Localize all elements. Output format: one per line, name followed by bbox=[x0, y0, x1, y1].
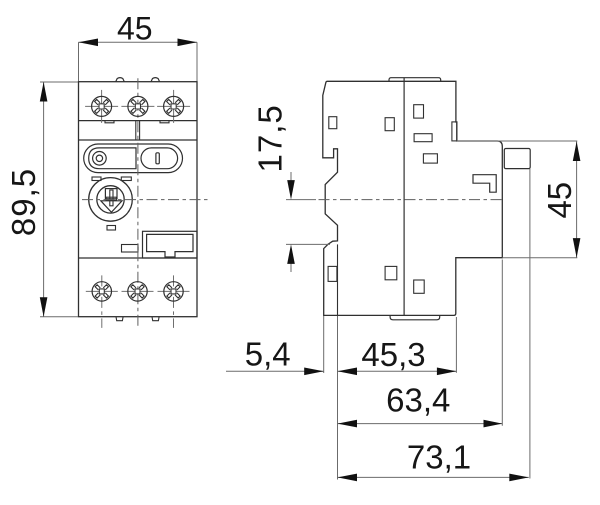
svg-text:5,4: 5,4 bbox=[245, 336, 291, 373]
5,4 arrow bbox=[304, 368, 324, 376]
tab at right edge bbox=[452, 122, 457, 141]
square hole lower-left tall bbox=[328, 266, 337, 281]
45 top right arrow bbox=[178, 39, 198, 47]
bottom extension lines bbox=[323, 316, 325, 373]
63,4 right arrow bbox=[484, 420, 503, 428]
top edge bump right bbox=[151, 78, 160, 82]
bottom screw 2 bbox=[122, 282, 154, 301]
arrowheads bbox=[40, 39, 581, 482]
rocker left panel bbox=[89, 148, 136, 169]
side centerline dash-dot bbox=[319, 199, 503, 201]
svg-text:45: 45 bbox=[117, 11, 153, 47]
45,3 left arrow bbox=[338, 368, 358, 376]
svg-text:89,5: 89,5 bbox=[5, 168, 42, 236]
square hole upper-left bbox=[329, 117, 337, 129]
45 right bottom arrow bbox=[573, 238, 581, 258]
horizontal line below top screws bbox=[79, 120, 198, 122]
45 top left arrow bbox=[79, 39, 99, 47]
dim 5,4 line bbox=[226, 370, 324, 372]
svg-text:45: 45 bbox=[541, 182, 578, 219]
dim 17,5: extension lines bbox=[286, 199, 316, 201]
dim 45 right line bbox=[576, 142, 578, 258]
horizontal line above bottom screws bbox=[79, 257, 198, 259]
dim 73,1 line bbox=[338, 476, 529, 478]
knob outer circle bbox=[89, 178, 133, 222]
terminal window inner with notch bbox=[147, 234, 193, 257]
63,4 left arrow bbox=[338, 420, 358, 428]
dim 45 top: extension lines bbox=[78, 42, 80, 81]
knob inner circle bbox=[97, 186, 124, 213]
dim 45 top line bbox=[79, 41, 198, 43]
bottom screw 3 bbox=[158, 275, 190, 328]
knob cross horizontal slot bbox=[106, 197, 116, 200]
side top bump bbox=[389, 78, 441, 82]
top screw 3 bbox=[157, 90, 190, 123]
top screw 1 bbox=[85, 90, 118, 123]
73,1 right arrow bbox=[509, 474, 529, 482]
small rect left of knob top bbox=[92, 177, 101, 181]
dim 45,3 line bbox=[338, 370, 457, 372]
89,5 bottom arrow bbox=[40, 297, 48, 317]
top screw 2 bbox=[121, 96, 154, 116]
small rect right of knob top bbox=[121, 177, 131, 181]
mounting plane vertical bbox=[337, 244, 339, 315]
terminal window outer bbox=[143, 231, 198, 258]
top edge bump left bbox=[116, 78, 125, 82]
small rect left of terminal window bbox=[122, 245, 139, 253]
dim 89,5 line bbox=[43, 82, 45, 317]
dim 89,5: extension lines bbox=[40, 81, 78, 83]
square hole upper-middle bbox=[385, 118, 394, 131]
side view main outline bbox=[323, 81, 503, 315]
parting vertical line bbox=[403, 78, 405, 316]
center slot verticals bbox=[135, 121, 137, 140]
bottom tab left bbox=[116, 317, 123, 321]
horizontal line above rocker bbox=[79, 139, 198, 141]
square hole lower-middle bbox=[385, 266, 397, 279]
dim 45 right: extension lines bbox=[457, 140, 578, 142]
knob cross vertical slot bbox=[110, 190, 113, 206]
svg-text:45,3: 45,3 bbox=[361, 336, 425, 373]
front center vertical dash-dot line bbox=[137, 78, 139, 327]
knob grip rect bbox=[105, 189, 117, 199]
bottom screw 1 bbox=[86, 275, 118, 328]
DIN flange rect bbox=[504, 149, 530, 169]
I bar bbox=[156, 153, 159, 164]
dim 63,4 line bbox=[338, 423, 503, 425]
svg-text:63,4: 63,4 bbox=[386, 381, 450, 418]
rect below knob bbox=[107, 226, 116, 231]
horizontal slot upper bbox=[414, 134, 432, 142]
svg-text:17,5: 17,5 bbox=[252, 104, 289, 172]
17,5 upper arrow bbox=[287, 180, 295, 200]
small slot mid bbox=[423, 154, 437, 163]
45 right top arrow bbox=[573, 142, 581, 162]
tab below line left bbox=[105, 121, 114, 123]
17,5 lower arrow bbox=[287, 244, 295, 264]
side bottom bump bbox=[390, 315, 440, 319]
rocker right capsule bbox=[141, 148, 178, 169]
rocker outer stadium bbox=[84, 144, 183, 173]
svg-text:73,1: 73,1 bbox=[407, 439, 471, 476]
square hole lower-right bbox=[414, 280, 425, 293]
square hole upper-right bbox=[414, 105, 424, 118]
L-shaped step bbox=[473, 175, 496, 193]
dim 17,5 tails bbox=[290, 172, 292, 194]
45,3 right arrow bbox=[437, 368, 457, 376]
tab below line right bbox=[160, 121, 169, 123]
front view body outline bbox=[79, 82, 198, 317]
knob pointer triangle bbox=[101, 201, 122, 213]
front horizontal dash-dot centerline bbox=[82, 199, 211, 201]
73,1 left arrow bbox=[338, 474, 358, 482]
O button ring bbox=[93, 152, 107, 166]
bottom tab right bbox=[152, 317, 159, 321]
89,5 top arrow bbox=[40, 82, 48, 102]
